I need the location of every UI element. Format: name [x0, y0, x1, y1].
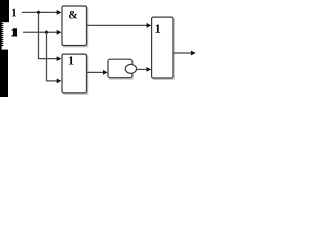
- arrowhead into AND input 1: [57, 10, 62, 15]
- cropped black object edge (left margin, torn/serrated): [0, 0, 9, 97]
- wire: input A to AND gate: [22, 11, 58, 13]
- junction node on wire B: [44, 30, 48, 34]
- arrowhead into AND input 2: [57, 30, 62, 35]
- arrowhead into OR input 1: [57, 56, 62, 61]
- wire: OR output to inverter: [87, 71, 104, 73]
- arrowhead final output: [191, 51, 196, 56]
- wire: final output: [173, 52, 191, 54]
- wire: input B to AND gate: [23, 31, 58, 33]
- wire: branch B down to OR gate input 2: [47, 32, 58, 81]
- inverter bubble: [125, 64, 136, 73]
- inverter U3 box: [108, 59, 132, 77]
- wire: inverter to output gate input 2: [137, 68, 148, 70]
- wire: branch A down to OR gate input 1: [39, 12, 58, 58]
- output gate U4: [152, 17, 173, 78]
- junction node on wire A: [36, 10, 40, 14]
- OR gate U2: [62, 54, 87, 93]
- arrowhead into inverter: [103, 70, 108, 75]
- OR gate U2 box shadow: [63, 55, 87, 94]
- AND gate label &: [69, 11, 77, 19]
- OR gate label 1: [69, 56, 74, 64]
- arrowhead into output gate input 1: [147, 23, 152, 28]
- inverter U3 box shadow: [109, 60, 133, 79]
- wire: AND output to output gate input 1: [87, 24, 148, 26]
- output gate label 1: [156, 25, 161, 33]
- input label 1 (top input A): [12, 9, 16, 17]
- AND gate U1 box shadow: [63, 7, 87, 47]
- AND gate U1: [62, 6, 87, 46]
- output gate U4 box shadow: [153, 18, 174, 79]
- arrowhead into OR input 2: [57, 79, 62, 84]
- input label 1 (lower input B, bold): [12, 28, 18, 36]
- arrowhead into output gate input 2: [147, 67, 152, 72]
